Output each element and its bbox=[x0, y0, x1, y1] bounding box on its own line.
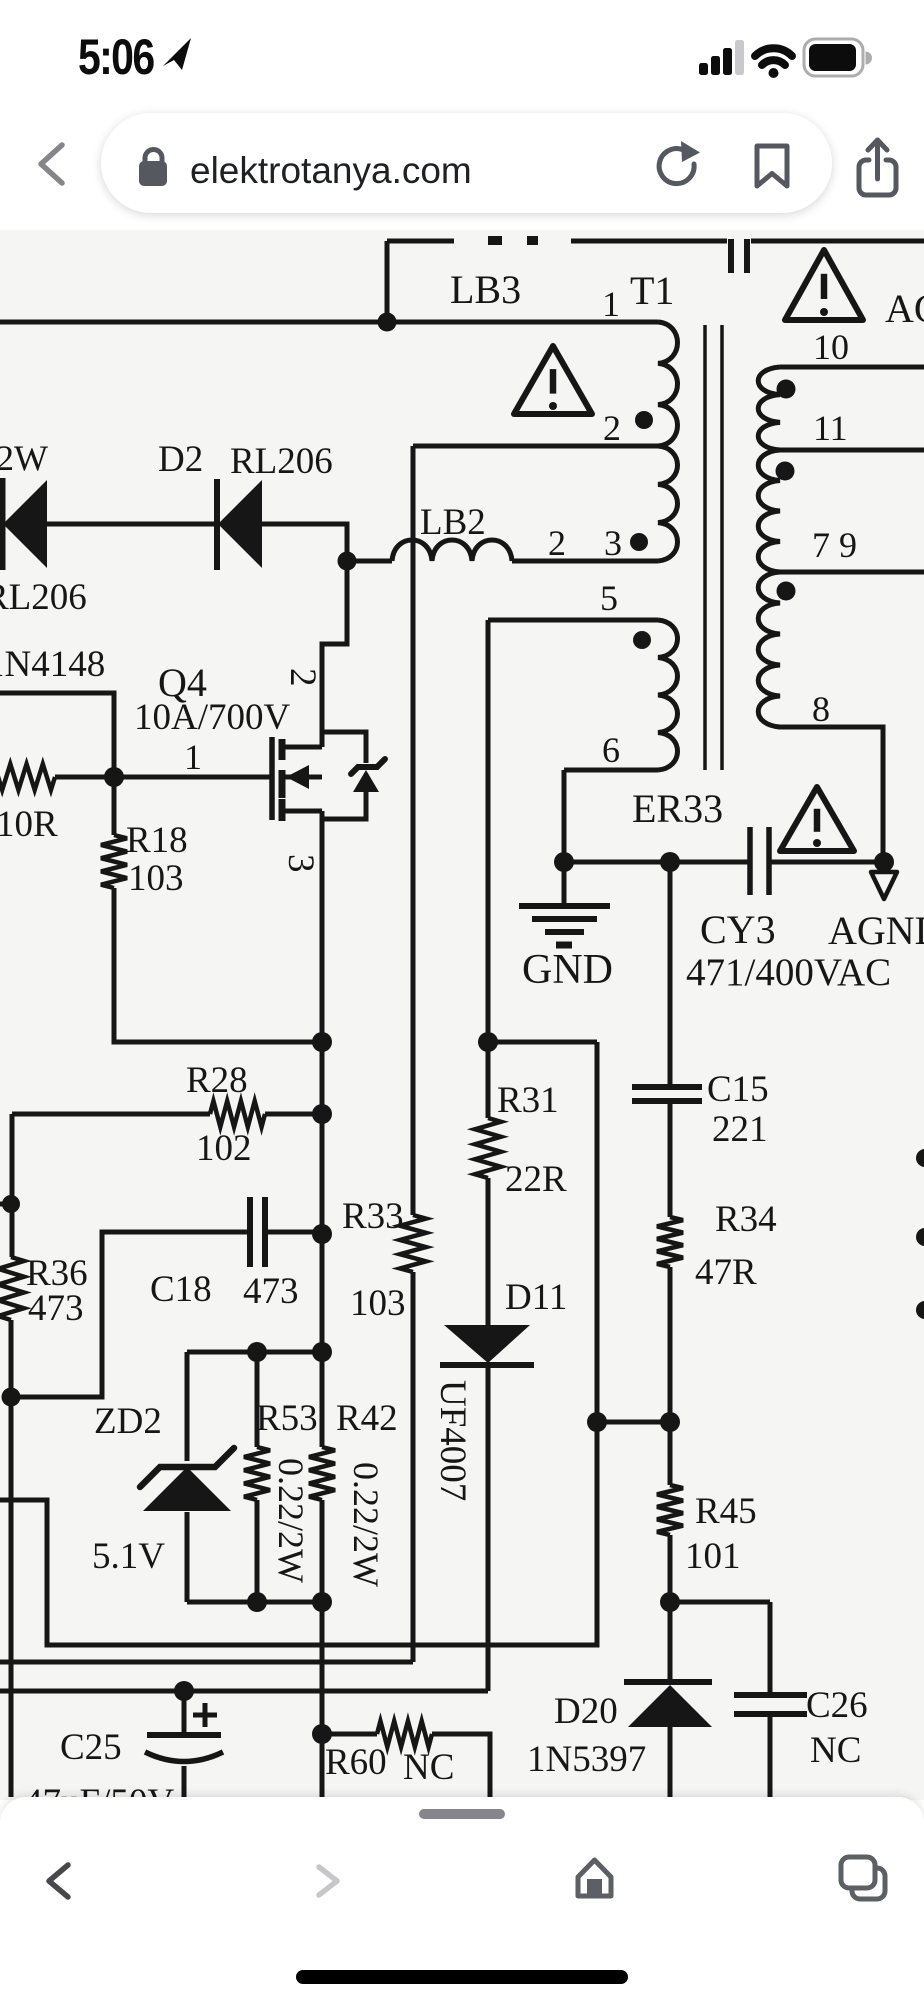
svg-text:CY3: CY3 bbox=[700, 907, 776, 952]
svg-text:NC: NC bbox=[403, 1747, 454, 1788]
svg-text:10R: 10R bbox=[0, 804, 58, 845]
svg-text:D20: D20 bbox=[554, 1691, 618, 1732]
wire T1 pin2 bbox=[413, 444, 658, 449]
resistor R28 bbox=[12, 1112, 210, 1117]
transistor Q4 channel segments bbox=[279, 739, 286, 760]
svg-text:C25: C25 bbox=[60, 1727, 122, 1768]
capacitor CY3 bbox=[747, 827, 753, 895]
svg-text:221: 221 bbox=[712, 1109, 768, 1150]
node left edge stub bbox=[0, 1202, 12, 1207]
svg-text:AGND: AGND bbox=[828, 908, 924, 953]
capacitor C26 bbox=[768, 1602, 773, 1695]
node R42 top bbox=[312, 1342, 332, 1362]
resistor R34 bbox=[657, 1217, 683, 1267]
svg-text:NC: NC bbox=[810, 1730, 861, 1771]
battery bbox=[804, 39, 872, 76]
svg-text:1: 1 bbox=[184, 737, 202, 777]
svg-text:R60: R60 bbox=[325, 1742, 387, 1783]
svg-text:LB3: LB3 bbox=[450, 267, 521, 312]
node C25 tap bbox=[174, 1681, 194, 1701]
svg-text:2: 2 bbox=[282, 668, 323, 687]
wire T1 pin11 bbox=[780, 448, 924, 453]
wire T1 pin5 bbox=[488, 618, 658, 623]
wire top bus right segment bbox=[751, 239, 924, 244]
svg-text:11: 11 bbox=[813, 408, 848, 448]
svg-text:10A/700V: 10A/700V bbox=[134, 697, 291, 738]
wire bottom rail 2 bbox=[0, 1660, 413, 1665]
svg-text:RL206: RL206 bbox=[0, 577, 87, 618]
node C18/main bbox=[312, 1224, 332, 1244]
wire left vertical to bottom bbox=[9, 1397, 14, 1797]
T1 winding 2-3 bbox=[658, 446, 678, 561]
svg-text:D2: D2 bbox=[158, 439, 203, 480]
svg-text:101: 101 bbox=[685, 1536, 741, 1577]
wire long vertical (pin2 feedback) lower bbox=[411, 1272, 416, 1662]
transistor Q4 source lead bbox=[283, 809, 322, 814]
svg-text:C26: C26 bbox=[806, 1685, 868, 1726]
inductor LB2 bbox=[347, 559, 392, 564]
wire Q4 source down bbox=[320, 811, 325, 1447]
wire diode link bbox=[0, 522, 217, 527]
connector dot 2 bbox=[916, 1228, 924, 1246]
transistor Q4 body arrow bbox=[283, 775, 322, 780]
svg-text:10: 10 bbox=[813, 327, 849, 367]
svg-text:2: 2 bbox=[603, 408, 621, 448]
wire ground bus bbox=[564, 860, 750, 865]
svg-text:LB2: LB2 bbox=[420, 502, 486, 543]
T1 winding 11-79 bbox=[758, 450, 780, 572]
bookmark bbox=[757, 146, 787, 186]
svg-text:1: 1 bbox=[602, 284, 620, 324]
svg-text:7 9: 7 9 bbox=[812, 525, 857, 565]
capacitor C15 bbox=[668, 862, 673, 1087]
svg-text:UF4007: UF4007 bbox=[432, 1380, 473, 1501]
node R53 top bbox=[247, 1342, 267, 1362]
wifi bbox=[755, 48, 792, 78]
resistor 10R (clipped) bbox=[0, 764, 55, 790]
svg-text:2W: 2W bbox=[0, 438, 48, 478]
connector dot 3 bbox=[916, 1301, 924, 1319]
ground GND symbol bbox=[562, 862, 567, 904]
svg-text:R31: R31 bbox=[497, 1080, 559, 1121]
svg-text:473: 473 bbox=[28, 1288, 84, 1329]
T1 winding 5-6 bbox=[658, 620, 678, 770]
svg-text:R34: R34 bbox=[715, 1199, 777, 1240]
reload bbox=[659, 141, 700, 184]
node R31 top bbox=[478, 1032, 498, 1052]
wire drop from top bus to node bbox=[385, 241, 390, 322]
node R36/C18 bbox=[2, 1388, 21, 1407]
svg-text:1N4148: 1N4148 bbox=[0, 644, 105, 685]
resistor R18 bbox=[112, 777, 117, 835]
polarity dot pin2 bbox=[635, 411, 653, 429]
wire T1 pin8 bbox=[778, 727, 883, 862]
node main/R60 bbox=[312, 1724, 332, 1744]
polarity dot pin10 bbox=[777, 380, 796, 399]
diode D2 bbox=[214, 479, 220, 570]
svg-text:ZD2: ZD2 bbox=[94, 1401, 162, 1442]
share bbox=[859, 140, 896, 195]
connector dot 1 bbox=[916, 1149, 924, 1167]
label C25 plus bbox=[203, 1703, 208, 1727]
svg-text:3: 3 bbox=[604, 523, 622, 563]
svg-text:D11: D11 bbox=[505, 1277, 567, 1318]
svg-text:GND: GND bbox=[522, 947, 613, 993]
warning triangle primary bbox=[514, 346, 592, 414]
svg-text:47R: 47R bbox=[695, 1252, 757, 1293]
svg-text:1N5397: 1N5397 bbox=[527, 1739, 646, 1780]
wire ZD2 bottom rail bbox=[187, 1600, 322, 1605]
capacitor C18 bbox=[11, 1232, 250, 1397]
capacitor (clipped, plates in top bus) bbox=[728, 239, 734, 273]
svg-text:103: 103 bbox=[350, 1283, 406, 1324]
svg-text:R33: R33 bbox=[342, 1196, 404, 1237]
svg-text:471/400VAC: 471/400VAC bbox=[686, 951, 891, 994]
wire link R34-R45 bbox=[597, 1420, 670, 1425]
svg-text:C15: C15 bbox=[707, 1069, 769, 1110]
wire mid vertical bbox=[0, 1042, 597, 1645]
polarity dot pin7 bbox=[777, 582, 796, 601]
svg-text:R18: R18 bbox=[126, 820, 188, 861]
wire R36 branch bbox=[10, 1114, 15, 1257]
node R53 bottom bbox=[247, 1592, 267, 1612]
diode RL206 (left, clipped) bbox=[0, 478, 6, 570]
svg-text:RL206: RL206 bbox=[230, 441, 333, 482]
svg-text:R42: R42 bbox=[336, 1398, 398, 1439]
wire main vertical lower bbox=[320, 1500, 325, 1797]
node D2/LB2 junction bbox=[338, 552, 357, 571]
svg-text:0.22/2W: 0.22/2W bbox=[346, 1462, 386, 1587]
wire gate bbox=[114, 775, 272, 780]
svg-text:R53: R53 bbox=[256, 1398, 318, 1439]
node R42 bottom bbox=[312, 1592, 332, 1612]
T1 winding 1-2 bbox=[658, 322, 678, 446]
back chevron bbox=[41, 145, 62, 183]
AGND symbol bbox=[882, 862, 887, 871]
resistor R36 bbox=[0, 1257, 24, 1320]
padlock bbox=[139, 150, 167, 187]
node mid/R45 link bbox=[587, 1412, 607, 1432]
node R28/main bbox=[312, 1104, 332, 1124]
svg-text:R28: R28 bbox=[186, 1060, 248, 1101]
svg-text:AC: AC bbox=[885, 286, 924, 331]
wire long vertical (pin2 feedback) upper bbox=[411, 446, 416, 1215]
wire T1 pin10 bbox=[780, 365, 924, 370]
node junction at LB3 line bbox=[378, 313, 397, 332]
svg-text:2: 2 bbox=[548, 523, 566, 563]
transformer core bbox=[703, 325, 707, 770]
forward nav chevron bbox=[319, 1867, 337, 1895]
schematic background bbox=[0, 228, 924, 1800]
node D20 top bbox=[660, 1592, 680, 1612]
resistor R33 bbox=[400, 1215, 426, 1272]
node R45 top bbox=[660, 1412, 680, 1432]
diode D11 bbox=[444, 1325, 530, 1363]
wire T1 pin7/9 bbox=[780, 570, 924, 575]
wire ZD2 top rail bbox=[187, 1350, 322, 1355]
svg-text:C18: C18 bbox=[150, 1269, 212, 1310]
artifact dashes (clipped content above) bbox=[488, 236, 502, 245]
wire link to C26 bbox=[670, 1600, 770, 1605]
svg-text:0.22/2W: 0.22/2W bbox=[271, 1458, 311, 1583]
transistor Q4 gate bar bbox=[269, 737, 275, 820]
polarity dot pin3 bbox=[630, 533, 648, 551]
node gate junction bbox=[104, 767, 124, 787]
wire top bus left segment bbox=[387, 239, 454, 244]
capacitor C25 (polarized) bbox=[182, 1691, 187, 1735]
wire 1N4148 branch bbox=[0, 693, 114, 777]
svg-text:22R: 22R bbox=[505, 1159, 567, 1200]
zener ZD2 bbox=[185, 1352, 190, 1461]
wire R31 link bbox=[488, 1040, 597, 1045]
svg-text:6: 6 bbox=[602, 730, 620, 770]
node pin6/gnd bbox=[554, 852, 574, 872]
wire pin5 vertical bbox=[486, 620, 491, 1118]
wire R31 to D11 bbox=[486, 1178, 491, 1325]
T1 winding 79-8 bbox=[758, 572, 780, 727]
back nav chevron bbox=[49, 1865, 68, 1897]
transistor Q4 drain lead bbox=[283, 745, 322, 750]
svg-text:5.1V: 5.1V bbox=[92, 1536, 165, 1577]
wire T1 pin6 bbox=[564, 768, 658, 773]
resistor R42 bbox=[309, 1447, 335, 1500]
warning triangle secondary top bbox=[785, 250, 863, 320]
polarity dot pin5 bbox=[633, 631, 651, 649]
svg-text:R45: R45 bbox=[695, 1491, 757, 1532]
resistor R45 bbox=[668, 1422, 673, 1485]
tabs icon bbox=[841, 1857, 885, 1899]
location arrow bbox=[163, 38, 191, 70]
diode D20 bbox=[668, 1602, 673, 1684]
resistor R31 bbox=[475, 1118, 501, 1178]
svg-text:103: 103 bbox=[128, 858, 184, 899]
wire drain riser bbox=[322, 561, 347, 747]
resistor R53 bbox=[255, 1352, 260, 1447]
node bus/AGND bbox=[874, 852, 894, 872]
node source/R18 bbox=[312, 1032, 332, 1052]
svg-text:8: 8 bbox=[812, 689, 830, 729]
svg-text:T1: T1 bbox=[630, 268, 674, 313]
resistor R60 bbox=[322, 1732, 377, 1737]
wire T1 pin1 bbox=[0, 320, 658, 325]
svg-text:ER33: ER33 bbox=[632, 786, 723, 831]
polarity dot pin11 bbox=[776, 462, 795, 481]
svg-text:473: 473 bbox=[243, 1271, 299, 1312]
home icon bbox=[578, 1860, 611, 1896]
node bus/C15 bbox=[660, 852, 680, 872]
svg-text:102: 102 bbox=[196, 1128, 252, 1169]
zener clamp across Q4 bbox=[322, 732, 366, 763]
wire D2 to node bbox=[262, 524, 347, 561]
svg-text:3: 3 bbox=[280, 854, 321, 873]
warning triangle CY3 bbox=[780, 787, 854, 851]
wire top bus middle segment bbox=[571, 239, 727, 244]
T1 winding 10-11 bbox=[758, 367, 780, 450]
cellular bars bbox=[699, 40, 744, 75]
svg-text:5: 5 bbox=[600, 578, 618, 618]
wire bottom rail 3 bbox=[0, 1689, 488, 1694]
